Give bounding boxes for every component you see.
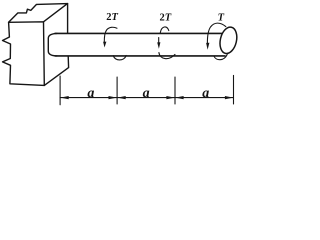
svg-text:a: a [87,86,94,101]
svg-text:2T: 2T [160,13,172,24]
svg-text:a: a [202,86,209,101]
svg-text:2T: 2T [106,12,118,23]
svg-text:a: a [143,86,150,101]
svg-text:T: T [218,12,225,23]
